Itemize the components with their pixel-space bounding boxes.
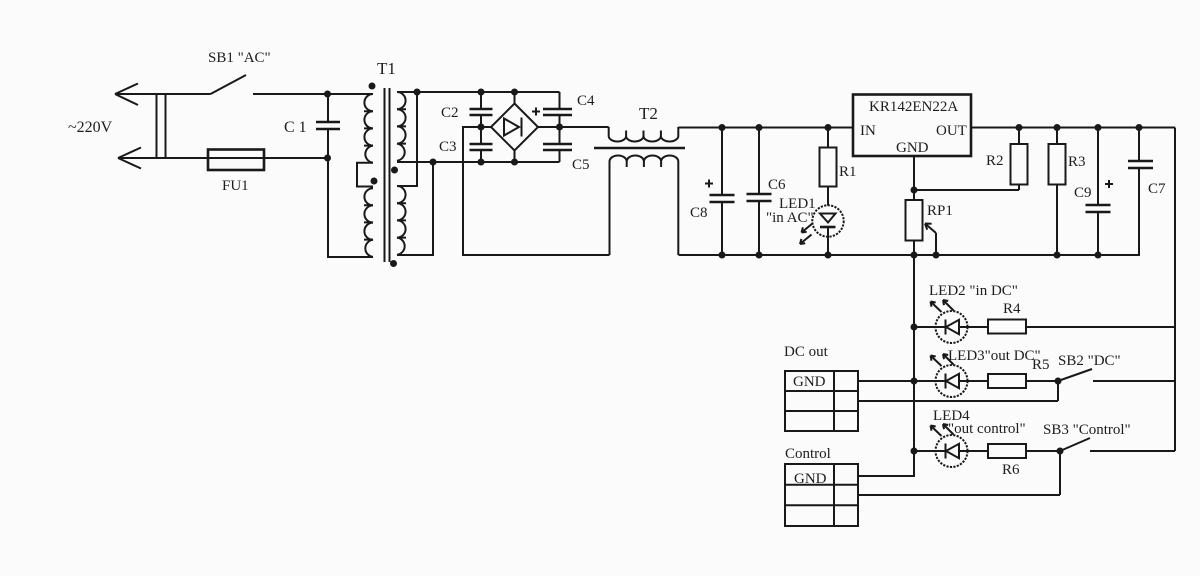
LED1 arrows: [802, 223, 814, 233]
wire C1 down to primary bottom: [328, 158, 373, 257]
node junction R3 top: [1054, 124, 1061, 131]
node junction C8 top: [719, 124, 726, 131]
svg-text:C3: C3: [439, 139, 457, 155]
capacitor C3: [439, 128, 493, 162]
connector DC out: [784, 344, 858, 431]
svg-text:C6: C6: [768, 177, 786, 193]
regulator U1 KR142EN22A: [853, 95, 971, 157]
wire secondary winding2 bottom link: [397, 162, 433, 255]
svg-text:C 1: C 1: [284, 119, 307, 136]
wire Control GND row: [858, 451, 914, 476]
svg-text:~220V: ~220V: [68, 119, 113, 136]
svg-text:GND: GND: [793, 374, 826, 390]
wire primary jog: [357, 163, 373, 187]
wire switch to T1 top: [253, 93, 373, 95]
svg-text:LED3"out DC": LED3"out DC": [948, 348, 1041, 364]
node junction C2 top: [478, 89, 485, 96]
resistor R5: [968, 380, 989, 382]
svg-text:C9: C9: [1074, 185, 1092, 201]
fuse FU1: [208, 150, 264, 195]
C8 polarity plus: [705, 180, 713, 188]
node junction R2 top: [1016, 124, 1023, 131]
node junction 417,92: [414, 89, 421, 96]
wire bottom AC lead with arrow: [118, 148, 208, 169]
node junction R1 top: [825, 124, 832, 131]
resistor R2: [986, 128, 1028, 191]
transformer T1: [357, 59, 406, 267]
node junction wiper bottom: [933, 252, 940, 259]
resistor R6: [968, 450, 989, 452]
wire SB2 to right rail: [1093, 380, 1175, 382]
wire Control row2 to SB3: [858, 451, 1060, 495]
C9 polarity plus: [1105, 180, 1113, 188]
node junction LED2 branch: [911, 324, 918, 331]
T1 secondary winding 1: [397, 92, 406, 161]
LED2: [936, 311, 968, 343]
LED2 row: [911, 283, 1176, 343]
resistor R4: [968, 326, 989, 328]
wire top AC lead with arrow: [115, 84, 211, 106]
wire bridge minus (left corner): [463, 127, 610, 255]
LED3 arrows: [931, 356, 942, 367]
LED3 row: [911, 348, 1176, 397]
wire OUT rail: [971, 127, 1175, 129]
wire secondary bottom rail: [397, 161, 560, 163]
resistor R3: [1049, 128, 1086, 256]
svg-text:RP1: RP1: [927, 203, 953, 219]
node junction C8 bottom: [719, 252, 726, 259]
node junction LED4 branch: [911, 448, 918, 455]
T1 primary winding 1: [364, 94, 373, 163]
svg-text:Control: Control: [785, 446, 831, 462]
node junction C9 top: [1095, 124, 1102, 131]
wire R4 to right rail: [1026, 326, 1175, 328]
capacitor C8: [690, 128, 735, 256]
wire R6 to SB3: [1026, 450, 1060, 452]
svg-text:C5: C5: [572, 157, 590, 173]
svg-text:C2: C2: [441, 105, 459, 121]
node junction bridge top: [511, 89, 518, 96]
node junction bridge bottom: [511, 159, 518, 166]
node junction LED3 branch: [911, 378, 918, 385]
svg-text:SB1 "AC": SB1 "AC": [208, 50, 271, 66]
resistor R1: [820, 128, 857, 206]
bridge plus sign: [532, 108, 540, 116]
svg-text:IN: IN: [860, 123, 876, 139]
plug pins (two bars): [157, 94, 166, 159]
svg-text:SB3 "Control": SB3 "Control": [1043, 422, 1131, 438]
wire ground rail right of T2: [679, 254, 1141, 256]
wire secondary parallel link: [397, 92, 417, 186]
node junction RP1 bottom: [911, 252, 918, 259]
wire bridge bottom stub: [514, 150, 516, 162]
T2 top winding: [609, 127, 679, 142]
svg-text:R5: R5: [1032, 357, 1050, 373]
node junction C6 top: [756, 124, 763, 131]
bridge rectifier diamond: [491, 89, 540, 166]
wire R5 to SB2: [1026, 380, 1058, 382]
svg-text:C8: C8: [690, 205, 708, 221]
capacitor C6: [747, 128, 787, 256]
capacitor C7: [1128, 128, 1166, 256]
svg-text:FU1: FU1: [222, 178, 249, 194]
bridge diode symbol: [504, 118, 522, 137]
svg-text:R6: R6: [1002, 462, 1020, 478]
node junction C7 top: [1136, 124, 1143, 131]
potentiometer RP1: [906, 200, 953, 255]
LED2 arrows: [931, 302, 942, 313]
svg-text:GND: GND: [794, 471, 827, 487]
T1 primary winding 2: [364, 188, 373, 257]
LED4 row: [911, 408, 1176, 478]
wire ground vertical below rail: [913, 255, 915, 451]
T2 bottom winding: [610, 156, 679, 256]
wire right vertical rail: [1174, 128, 1176, 452]
T1 primary dot 2: [371, 178, 378, 185]
capacitor C9: [1074, 128, 1113, 256]
svg-text:R2: R2: [986, 153, 1004, 169]
node junction C9 bottom: [1095, 252, 1102, 259]
svg-text:T2: T2: [639, 104, 658, 123]
node C1 top junction: [324, 91, 331, 98]
inductor T2: [594, 104, 685, 255]
wire bridge top stub: [514, 92, 516, 104]
node junction R3 bottom: [1054, 252, 1061, 259]
switch SB1: [208, 50, 271, 94]
node junction C6 bottom: [756, 252, 763, 259]
wire regulator GND down: [913, 156, 915, 200]
svg-text:LED2 "in DC": LED2 "in DC": [929, 283, 1018, 299]
LED3: [936, 365, 968, 397]
capacitor C4: [543, 92, 595, 126]
svg-text:R4: R4: [1003, 301, 1021, 317]
LED4: [936, 435, 968, 467]
svg-text:T1: T1: [377, 59, 396, 78]
node junction C4/C5 mid: [556, 124, 563, 131]
wire DC out row2 to SB2: [858, 381, 1058, 401]
connector Control: [785, 446, 858, 526]
node junction LED1 bottom: [825, 252, 832, 259]
T1 secondary dot 1: [391, 167, 398, 174]
capacitor C1: [284, 94, 340, 158]
node junction 433,161.5: [430, 159, 437, 166]
svg-text:C7: C7: [1148, 181, 1166, 197]
node junction GND/R2: [911, 187, 918, 194]
RP1 wiper: [925, 224, 936, 234]
wire secondary top rail: [397, 91, 560, 93]
svg-text:DC out: DC out: [784, 344, 829, 360]
wire DC out GND row: [858, 380, 914, 382]
LED1: [766, 196, 844, 255]
switch SB3: [1057, 448, 1064, 455]
svg-text:"in AC": "in AC": [766, 210, 814, 226]
wire bridge plus to T2: [538, 126, 609, 128]
svg-text:OUT: OUT: [936, 123, 967, 139]
svg-text:KR142EN22A: KR142EN22A: [869, 99, 958, 115]
LED4 arrows: [931, 426, 942, 437]
svg-text:SB2 "DC": SB2 "DC": [1058, 353, 1121, 369]
wire fuse to C1: [264, 157, 328, 159]
node C1 bottom junction: [324, 155, 331, 162]
T1 core: [385, 88, 390, 262]
T2 core line: [594, 147, 685, 150]
T1 primary dot 1: [369, 83, 376, 90]
svg-text:GND: GND: [896, 140, 929, 156]
wire T2 to regulator IN: [678, 127, 853, 129]
svg-text:R1: R1: [839, 164, 857, 180]
capacitor C5: [543, 128, 590, 173]
T1 secondary dot 2: [390, 260, 397, 267]
wire GND node to R2: [914, 189, 1019, 191]
T1 secondary winding 2: [397, 186, 406, 255]
node junction C3 bottom: [478, 159, 485, 166]
switch SB2: [1055, 378, 1062, 385]
capacitor C2: [441, 92, 493, 126]
wire SB3 to right rail: [1090, 450, 1175, 452]
node junction C2/C3 mid: [478, 124, 485, 131]
svg-text:R3: R3: [1068, 154, 1086, 170]
svg-text:C4: C4: [577, 93, 595, 109]
svg-text:"out control": "out control": [948, 421, 1026, 437]
